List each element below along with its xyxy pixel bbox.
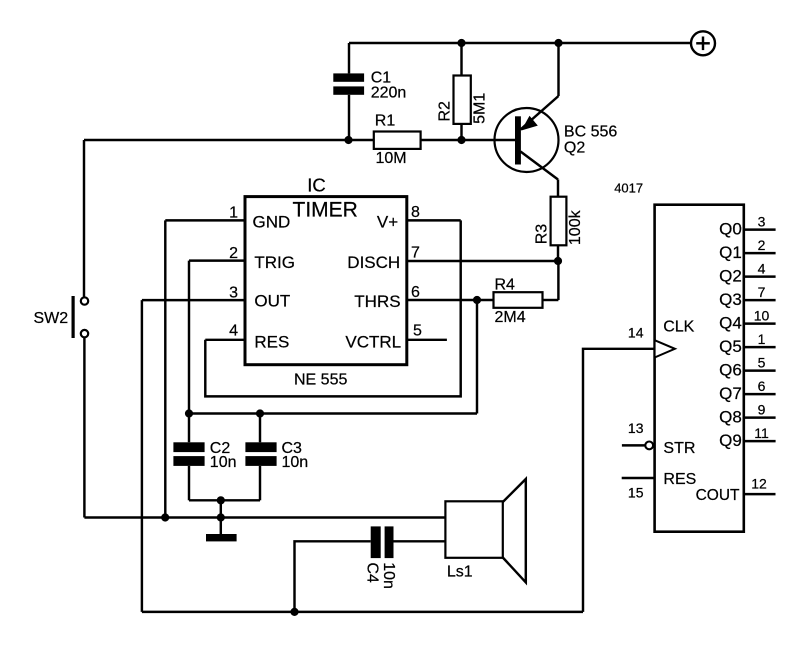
svg-text:4017: 4017 <box>614 181 643 196</box>
wire RES to V+ loop <box>205 220 460 396</box>
resistor R1 <box>374 113 421 167</box>
svg-text:10: 10 <box>754 308 770 324</box>
wire TRIG column <box>188 261 190 443</box>
svg-text:TIMER: TIMER <box>293 199 358 222</box>
svg-text:Q9: Q9 <box>719 431 742 450</box>
4017 output Q4 pin 10 <box>719 308 775 333</box>
svg-text:V+: V+ <box>377 212 398 231</box>
555 pin 2 TRIG <box>189 245 295 272</box>
4017 output Q6 pin 5 <box>719 355 775 380</box>
junction ground rail / GND column <box>161 513 169 521</box>
svg-text:9: 9 <box>758 402 766 418</box>
4017 output Q2 pin 4 <box>719 261 775 286</box>
555 pin 8 V+ <box>377 204 461 231</box>
4017 output COUT pin 12 <box>696 476 776 504</box>
svg-text:Q3: Q3 <box>719 290 742 309</box>
svg-text:STR: STR <box>663 440 695 457</box>
555 pin 5 VCTRL <box>345 323 447 352</box>
svg-text:CLK: CLK <box>663 319 694 336</box>
svg-text:RES: RES <box>254 332 289 351</box>
svg-text:C4: C4 <box>364 562 381 583</box>
capacitor C2 <box>173 440 236 500</box>
4017 output Q0 pin 3 <box>719 214 775 239</box>
555 pin 6 THRS <box>354 284 420 311</box>
power supply terminal + <box>691 31 715 55</box>
svg-text:7: 7 <box>758 284 766 300</box>
svg-text:5: 5 <box>413 323 422 340</box>
svg-text:IC: IC <box>307 175 326 196</box>
capacitor C3 <box>245 414 308 501</box>
wire OUT bottom row <box>142 611 583 613</box>
wire cap rail <box>189 412 477 414</box>
wire DISCH <box>407 260 558 262</box>
wire top rail <box>349 42 691 44</box>
svg-text:2: 2 <box>758 237 766 253</box>
svg-text:1: 1 <box>229 205 238 222</box>
wire SW2 bottom <box>83 338 85 518</box>
wire GND column <box>164 220 166 517</box>
svg-text:220n: 220n <box>371 85 407 102</box>
wire SW2 top <box>83 140 85 297</box>
svg-text:Q6: Q6 <box>719 361 742 380</box>
svg-text:4: 4 <box>758 261 766 277</box>
svg-text:Q7: Q7 <box>719 384 742 403</box>
svg-text:Ls1: Ls1 <box>447 564 473 581</box>
svg-text:5: 5 <box>758 355 766 371</box>
wire C4 branch <box>295 541 371 612</box>
4017 output Q1 pin 2 <box>719 237 775 262</box>
junction top rail / Q2 emitter <box>554 39 562 47</box>
svg-text:R3: R3 <box>533 224 550 245</box>
junction THRS / R4 <box>473 296 481 304</box>
svg-text:R2: R2 <box>436 101 453 122</box>
4017 output Q9 pin 11 <box>719 425 775 450</box>
capacitor C1 <box>333 43 406 140</box>
svg-text:COUT: COUT <box>696 487 740 504</box>
wire base row left <box>84 139 374 141</box>
wire THRS junction down to cap rail <box>476 300 478 414</box>
4017 STR input <box>622 420 696 457</box>
junction base row / C1 <box>344 136 352 144</box>
junction cap bottom / ground <box>217 496 225 504</box>
svg-text:3: 3 <box>758 214 766 230</box>
svg-text:10n: 10n <box>210 454 237 471</box>
svg-text:Q1: Q1 <box>719 243 742 262</box>
svg-text:15: 15 <box>628 484 644 500</box>
junction OUT bottom / C4 branch <box>290 608 298 616</box>
junction top rail / R2 <box>457 39 465 47</box>
svg-text:8: 8 <box>411 204 420 221</box>
junction cap rail / C2 <box>185 409 193 417</box>
svg-text:11: 11 <box>754 425 769 441</box>
capacitor C4 <box>364 526 398 589</box>
wire CLK riser <box>583 349 655 612</box>
svg-text:2M4: 2M4 <box>495 309 526 326</box>
svg-text:10n: 10n <box>282 454 309 471</box>
switch SW2 <box>34 296 89 338</box>
svg-text:7: 7 <box>411 245 420 262</box>
555 pin 3 OUT <box>142 285 290 311</box>
4017 output Q7 pin 6 <box>719 378 775 403</box>
svg-text:5M1: 5M1 <box>472 93 489 124</box>
wire C2 C3 bottom <box>189 499 260 501</box>
svg-text:4: 4 <box>229 323 238 340</box>
svg-text:TRIG: TRIG <box>254 253 295 272</box>
junction DISCH / R3 / R4 <box>554 257 562 265</box>
junction ground rail / ground stub <box>217 513 225 521</box>
svg-text:Q8: Q8 <box>719 408 742 427</box>
wire THRS <box>407 299 494 301</box>
junction base row / R2 <box>457 136 465 144</box>
resistor R4 <box>494 261 559 326</box>
svg-text:OUT: OUT <box>254 292 290 311</box>
resistor R2 <box>436 43 488 140</box>
svg-text:SW2: SW2 <box>34 310 69 327</box>
svg-text:NE 555: NE 555 <box>294 371 347 388</box>
svg-text:THRS: THRS <box>354 292 400 311</box>
wire base row right <box>421 139 515 141</box>
svg-text:BC 556: BC 556 <box>564 123 617 140</box>
svg-text:R4: R4 <box>495 277 516 294</box>
svg-text:Q0: Q0 <box>719 220 742 239</box>
wire ground rail <box>84 516 445 518</box>
svg-text:10M: 10M <box>376 150 407 167</box>
svg-text:6: 6 <box>411 284 420 301</box>
svg-text:14: 14 <box>628 324 644 340</box>
wire down to ground <box>220 500 222 534</box>
svg-text:100k: 100k <box>567 209 584 245</box>
4017 RES input <box>622 471 697 501</box>
transistor Q2 <box>495 43 618 197</box>
resistor R3 <box>533 197 584 261</box>
4017 output Q3 pin 7 <box>719 284 775 309</box>
svg-text:DISCH: DISCH <box>347 253 400 272</box>
wire OUT column <box>141 300 143 612</box>
svg-text:GND: GND <box>253 212 291 231</box>
speaker Ls1 <box>445 479 525 582</box>
555 pin 7 DISCH <box>347 245 420 273</box>
wire C4 to speaker <box>394 540 446 542</box>
svg-text:Q4: Q4 <box>719 314 742 333</box>
IC U2 4017 box <box>655 205 744 532</box>
junction cap rail / C3 <box>256 409 264 417</box>
4017 output Q5 pin 1 <box>719 331 775 356</box>
svg-text:RES: RES <box>663 471 696 488</box>
svg-text:1: 1 <box>758 331 766 347</box>
svg-text:R1: R1 <box>375 113 396 130</box>
555 pin 1 GND <box>165 205 290 232</box>
svg-text:13: 13 <box>628 420 644 436</box>
IC U1 555 box <box>245 197 407 365</box>
svg-text:3: 3 <box>229 285 238 302</box>
svg-text:12: 12 <box>751 476 767 492</box>
svg-text:Q2: Q2 <box>564 140 585 157</box>
4017 output Q8 pin 9 <box>719 402 775 427</box>
svg-text:2: 2 <box>229 245 238 262</box>
555 pin 4 RES <box>205 323 289 352</box>
svg-text:10n: 10n <box>380 562 397 589</box>
ground <box>206 534 237 541</box>
4017 CLK input <box>628 319 695 358</box>
svg-text:Q5: Q5 <box>719 337 742 356</box>
svg-text:6: 6 <box>758 378 766 394</box>
svg-text:VCTRL: VCTRL <box>345 332 401 351</box>
svg-text:Q2: Q2 <box>719 267 742 286</box>
